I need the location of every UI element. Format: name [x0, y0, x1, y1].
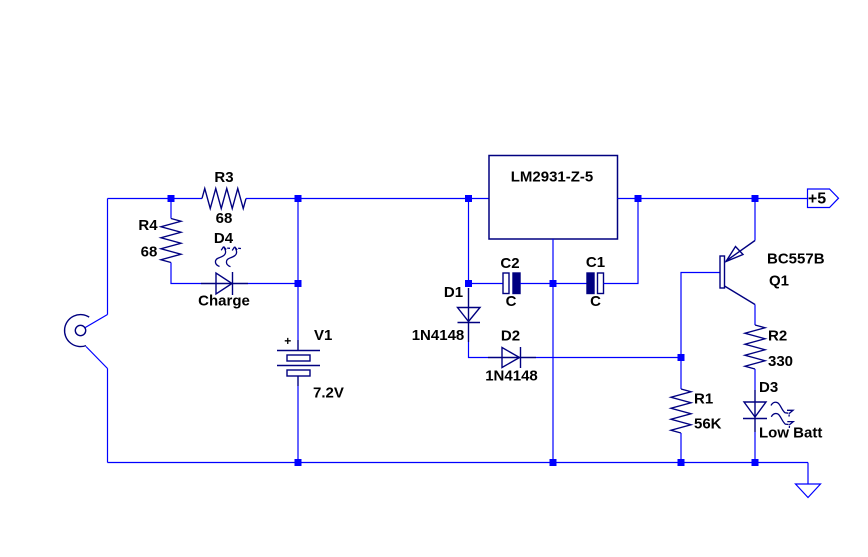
- svg-text:68: 68: [216, 210, 233, 227]
- svg-text:1N4148: 1N4148: [412, 327, 465, 344]
- wire D2 to node: [536, 357, 681, 359]
- svg-text:330: 330: [768, 353, 793, 370]
- wire bottom rail: [108, 462, 809, 464]
- svg-text:LM2931-Z-5: LM2931-Z-5: [511, 169, 594, 186]
- junction node bottom 3: [678, 459, 685, 466]
- LED D3: [743, 390, 767, 432]
- junction node center cap: [550, 280, 557, 287]
- junction node bottom 4: [752, 459, 759, 466]
- wire R4 top stub: [170, 199, 172, 219]
- wire V1 column upper: [297, 199, 299, 341]
- svg-text:R2: R2: [768, 328, 787, 345]
- terminal +5 flag: [808, 189, 839, 208]
- svg-text:1N4148: 1N4148: [485, 368, 538, 385]
- regulator U1 LM2931-Z-5: [489, 156, 618, 240]
- wire Q1 collector to R2: [754, 305, 756, 326]
- wire Q1 base: [681, 273, 720, 358]
- wire V1 column lower: [297, 386, 299, 463]
- resistor R1: [671, 389, 691, 433]
- diode D2: [488, 347, 536, 368]
- wire C2 to center node: [520, 283, 553, 285]
- wire Q1 emitter to +5 rail: [754, 199, 756, 241]
- svg-text:R3: R3: [214, 169, 233, 186]
- LED D4: [201, 272, 248, 295]
- svg-text:Low Batt: Low Batt: [759, 425, 822, 442]
- svg-text:+: +: [284, 334, 291, 348]
- wire R4 bottom stub: [171, 263, 201, 284]
- svg-text:C: C: [590, 293, 601, 310]
- wire C1 to output column: [604, 199, 639, 284]
- svg-text:R4: R4: [138, 217, 158, 234]
- wire center node to C1: [553, 283, 587, 285]
- battery V1: [277, 340, 320, 386]
- transistor Q1 BC557B: [720, 241, 755, 305]
- capacitor C1: [587, 273, 604, 294]
- svg-text:68: 68: [141, 244, 158, 261]
- svg-text:+5: +5: [808, 191, 826, 208]
- svg-text:C: C: [506, 293, 517, 310]
- wire regulator ground pin: [552, 239, 554, 284]
- svg-text:D3: D3: [759, 379, 778, 396]
- diode D1: [458, 288, 481, 342]
- svg-text:R1: R1: [694, 391, 713, 408]
- wire top rail left segment: [108, 198, 172, 200]
- resistor R4: [161, 219, 181, 263]
- svg-text:D1: D1: [444, 284, 463, 301]
- svg-text:C2: C2: [500, 255, 519, 272]
- capacitor C2: [503, 273, 520, 294]
- wire ground stub: [807, 463, 809, 485]
- junction node top 2: [295, 195, 302, 202]
- junction node bottom 1: [295, 459, 302, 466]
- svg-text:D4: D4: [214, 230, 234, 247]
- svg-text:BC557B: BC557B: [767, 251, 825, 268]
- junction node top 3: [465, 195, 472, 202]
- junction node bottom 2: [550, 459, 557, 466]
- wire jack bottom diagonal: [86, 347, 108, 369]
- wire regulator output: [618, 198, 809, 200]
- wire D3 to ground rail: [754, 432, 756, 463]
- svg-text:Charge: Charge: [198, 293, 250, 310]
- svg-text:C1: C1: [586, 254, 605, 271]
- wire R3 left stub: [171, 198, 202, 200]
- connector J1 jack symbol: [65, 315, 90, 347]
- wire left vertical lower: [107, 369, 109, 463]
- wire R3 right stub: [246, 198, 298, 200]
- resistor R3: [202, 189, 246, 209]
- wire R2 to D3: [754, 369, 756, 390]
- junction node D1 top: [465, 280, 472, 287]
- LED D4 arrow 1: [215, 247, 225, 267]
- wire D1 to D2: [469, 342, 489, 358]
- junction node D2 out: [678, 354, 685, 361]
- resistor R2: [745, 325, 765, 369]
- wire jack top diagonal: [85, 315, 107, 328]
- wire D4 to node: [248, 283, 298, 285]
- junction node top 4: [635, 195, 642, 202]
- svg-text:D2: D2: [501, 328, 520, 345]
- wire node to regulator: [298, 198, 489, 200]
- wire D1 column upper: [468, 199, 470, 284]
- wire C row left: [469, 283, 504, 285]
- wire center column to ground rail: [552, 284, 554, 463]
- ground symbol: [796, 484, 821, 498]
- LED D3 arrow 1: [771, 402, 788, 413]
- svg-text:Q1: Q1: [769, 273, 789, 290]
- junction node top 1: [168, 195, 175, 202]
- LED D3 arrow 2: [771, 414, 788, 425]
- svg-text:56K: 56K: [694, 416, 722, 433]
- svg-text:V1: V1: [314, 327, 332, 344]
- LED D4 arrow 2: [226, 247, 236, 267]
- wire R1 bottom stub: [680, 433, 682, 463]
- svg-text:7.2V: 7.2V: [313, 385, 344, 402]
- junction node charge: [295, 280, 302, 287]
- junction node top 5: [752, 195, 759, 202]
- wire left vertical upper: [107, 199, 109, 315]
- wire R1 top stub: [680, 358, 682, 390]
